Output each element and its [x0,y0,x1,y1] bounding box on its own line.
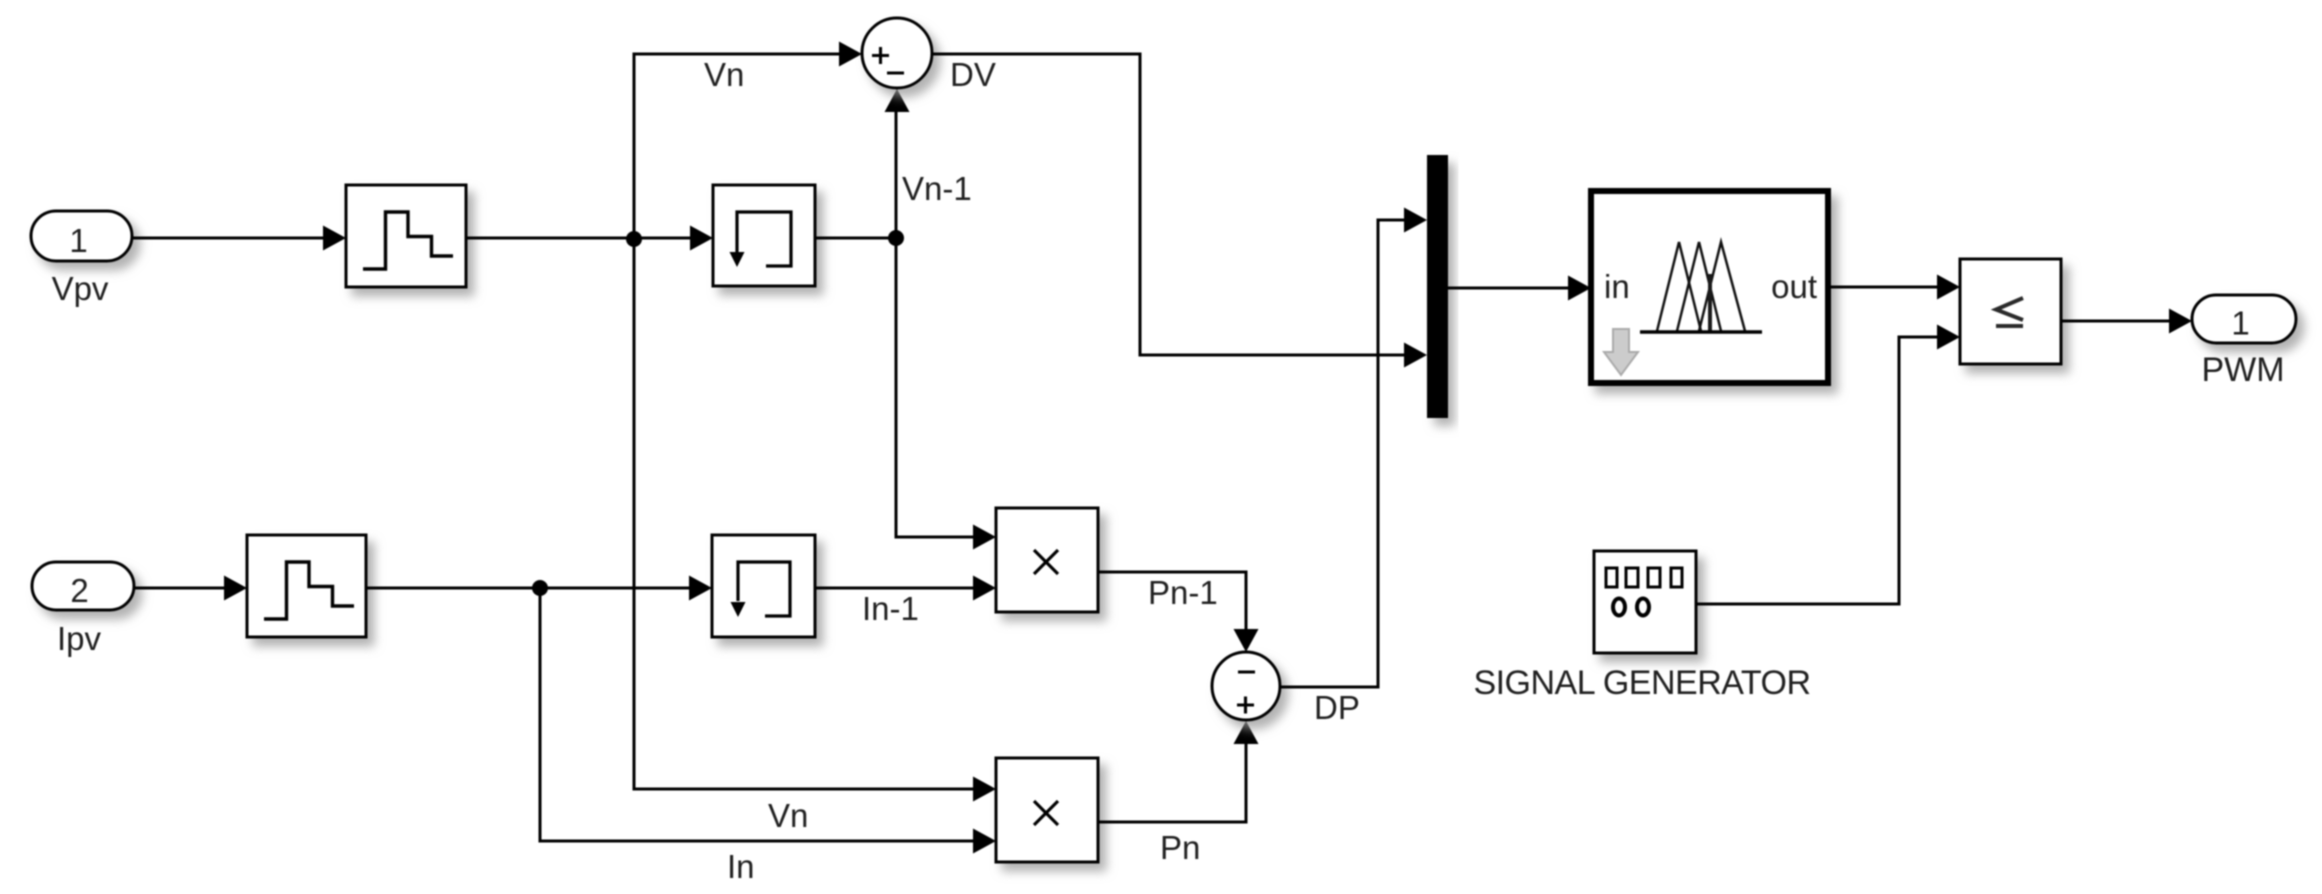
svg-text:1: 1 [69,222,87,259]
wire signal generator to relop input 2 [1696,337,1938,604]
wire P2 out to DP bottom (plus), label Pn [1098,743,1246,822]
wire DP out to mux input 1 [1280,220,1404,687]
gray arrow icon [1604,329,1638,375]
svg-text:Pn-1: Pn-1 [1148,574,1218,611]
wire fuzzy out to relational operator [1828,286,1938,289]
svg-text:In: In [727,848,755,885]
relational operator (<=) [1960,259,2061,364]
sum DV [862,18,932,88]
svg-text:1: 1 [2231,305,2249,342]
sum DP [1212,652,1280,720]
svg-text:Pn: Pn [1160,829,1200,866]
svg-text:Vn-1: Vn-1 [902,170,972,207]
unit delay UD1 [713,185,815,286]
wire relop out to outport [2061,320,2170,323]
product P2 [996,758,1098,862]
wire Vn-1 up into DV minus [895,111,898,238]
svg-text:DV: DV [950,56,996,93]
svg-text:2: 2 [70,572,88,609]
node In junction [532,580,548,596]
svg-text:DP: DP [1314,689,1360,726]
svg-text:Vn: Vn [704,56,744,93]
inport 2 (Ipv) [32,562,134,610]
wire Vn up to sum DV [634,54,839,238]
wire DV out to mux input 2 [932,54,1404,355]
zero-order hold ZOH1 [346,185,466,287]
wire UD2 out to product P1 input2, label In-1 [815,587,973,590]
wire Vn down to product P2 [634,239,973,789]
wire ZOH2 to UD2 with junction [366,587,690,590]
svg-text:Vpv: Vpv [52,270,109,307]
membership functions icon [1657,242,1745,331]
node Vn-1 junction [888,230,904,246]
outport 1 (PWM) [2192,295,2296,343]
svg-text:Ipv: Ipv [57,620,102,657]
svg-text:out: out [1771,268,1817,305]
wire In down to product P2 [540,588,973,841]
wire Vn-1 down to product P1 [896,238,973,537]
zero-order hold ZOH2 [247,535,366,637]
svg-text:SIGNAL GENERATOR: SIGNAL GENERATOR [1473,664,1810,702]
wire P1 out to DP top (minus), label Pn-1 [1098,572,1246,629]
node Vn junction [626,231,642,247]
wire UD1 out with junction Vn-1 [815,237,896,240]
svg-text:In-1: In-1 [862,590,919,627]
product P1 [996,508,1098,612]
fuzzy logic controller U1 [1591,191,1828,383]
mux [1427,155,1448,418]
svg-text:Vn: Vn [768,797,808,834]
wire mux out to fuzzy in [1448,287,1569,290]
svg-text:in: in [1604,268,1630,305]
wire inport1 to ZOH1 [132,237,324,240]
inport 1 (Vpv) [31,211,132,261]
svg-text:PWM: PWM [2201,351,2284,389]
signal generator block [1594,551,1696,653]
unit delay UD2 [712,535,815,637]
wire inport2 to ZOH2 [134,587,225,590]
wire ZOH1 to unit delay UD1 with junction [466,237,691,240]
